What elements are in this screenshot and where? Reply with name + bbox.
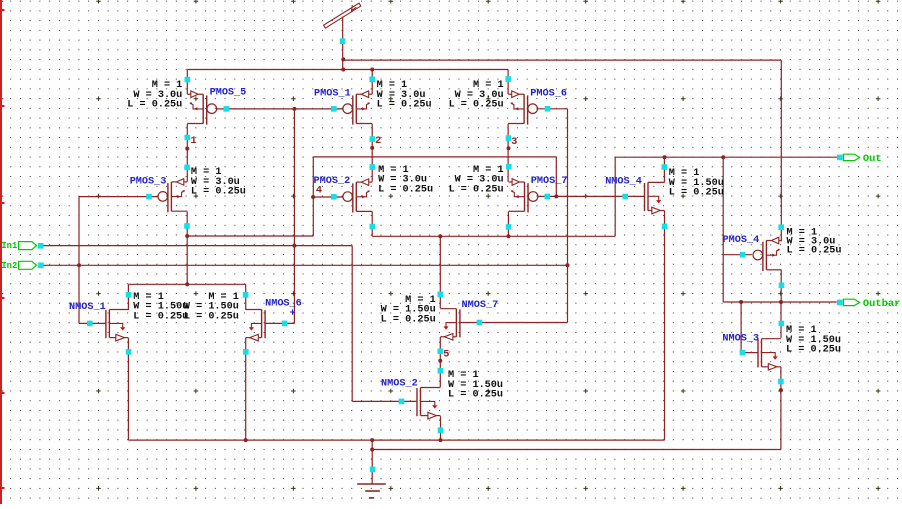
wire ground rail y=440.1 xyxy=(128,439,664,441)
pin NMOS_1 gate xyxy=(87,321,93,327)
wire rail B left drop x=615.2 xyxy=(614,157,616,236)
pin node 5 xyxy=(438,349,444,355)
junction node 2 xyxy=(370,146,374,150)
wire VDD stem xyxy=(342,17,344,70)
svg-text:L = 0.25u: L = 0.25u xyxy=(377,100,432,111)
wire NMOS_7 drain riser x=440.3 xyxy=(439,236,441,308)
ground symbol xyxy=(357,484,386,498)
junction PMOS_1 source tap xyxy=(370,68,374,72)
svg-text:L = 0.25u: L = 0.25u xyxy=(787,246,842,257)
wire rail B y=157.2 xyxy=(615,156,837,158)
junction ground stem at rail xyxy=(370,438,374,442)
wire PMOS_3 drain column xyxy=(186,211,188,284)
junction PMOS_2 gate xyxy=(311,195,315,199)
wire VDD row2 rail y=69.5 xyxy=(187,69,508,71)
anchor cross xyxy=(290,309,295,314)
wire VDD right drop x=781 xyxy=(780,60,782,241)
junction In2 right riser xyxy=(566,263,570,267)
pin NMOS_6 gate xyxy=(282,321,288,327)
svg-text:L = 0.25u: L = 0.25u xyxy=(378,184,433,195)
transistor NMOS_1 xyxy=(106,310,128,341)
transistor PMOS_3 xyxy=(158,179,187,213)
wire PMOS_6 source drop xyxy=(507,70,509,95)
junction In2 left riser xyxy=(77,263,81,267)
svg-text:NMOS_7: NMOS_7 xyxy=(462,300,499,311)
pin VDD stem port xyxy=(340,38,346,44)
wire PMOS_4 drain drop xyxy=(780,270,782,303)
transistor PMOS_4 xyxy=(753,237,781,271)
svg-text:2: 2 xyxy=(375,136,381,147)
junction PMOS_3 drain at bus xyxy=(185,234,189,238)
svg-text:L = 0.25u: L = 0.25u xyxy=(449,184,504,195)
svg-text:PMOS_5: PMOS_5 xyxy=(210,88,247,99)
wire PMOS_4 gate stub xyxy=(723,254,751,256)
junction PMOS_3 drain column at NMOS bus xyxy=(185,282,189,286)
wire gate bus PMOS_5-PMOS_1 y=108.9 xyxy=(216,108,343,110)
junction PMOS_7 drain at bus xyxy=(506,234,510,238)
wire NMOS_6 drain stub xyxy=(245,284,247,310)
junction VDD top rail xyxy=(341,57,345,61)
svg-text:PMOS_1: PMOS_1 xyxy=(314,89,351,100)
wire ground rail 2 y=449.5 xyxy=(372,449,781,451)
wire rail A right drop x=556.3 xyxy=(555,157,557,197)
svg-text:NMOS_6: NMOS_6 xyxy=(265,299,302,310)
wire PMOS_7 drain drop xyxy=(507,211,509,236)
transistor NMOS_2 xyxy=(417,388,441,419)
wire NMOS_6 source drop xyxy=(245,338,247,441)
svg-text:Outbar: Outbar xyxy=(863,298,900,310)
svg-text:L = 0.25u: L = 0.25u xyxy=(127,100,182,111)
wire In1 drop x=352.2 xyxy=(351,246,353,402)
wire rail A y=156.9 xyxy=(313,156,556,158)
transistor NMOS_7 xyxy=(440,309,460,340)
pin NMOS_3 source xyxy=(778,379,784,385)
junction In1 riser at gate bus xyxy=(292,107,296,111)
svg-text:L = 0.25u: L = 0.25u xyxy=(786,345,841,356)
wire In1 y=245.6 xyxy=(44,245,353,247)
pin PMOS_7 drain xyxy=(506,224,512,230)
pin NMOS_2 source xyxy=(438,427,444,433)
transistor NMOS_6 xyxy=(246,310,265,341)
junction NMOS_3 gate riser xyxy=(739,300,743,304)
power symbol VDD xyxy=(324,3,361,28)
svg-text:5: 5 xyxy=(443,350,449,361)
junction In1 riser xyxy=(292,244,296,248)
svg-text:PMOS_2: PMOS_2 xyxy=(314,176,351,187)
transistor PMOS_6 xyxy=(508,91,537,125)
pin PMOS_5 source xyxy=(185,77,191,83)
wire node 5 column xyxy=(439,337,441,387)
pin PMOS_2 drain xyxy=(370,224,376,230)
junction ground stem at rail 2 xyxy=(370,448,374,452)
svg-text:NMOS_3: NMOS_3 xyxy=(722,333,759,344)
pin NMOS_1 drain xyxy=(126,292,132,298)
junction NMOS_4 drain at rail B xyxy=(663,155,667,159)
svg-text:1: 1 xyxy=(191,136,197,147)
svg-text:L = 0.25u: L = 0.25u xyxy=(381,314,436,325)
junction VDD row2 xyxy=(341,68,345,72)
pin NMOS_6 source xyxy=(243,349,249,355)
pin NMOS_2 drain xyxy=(438,368,444,374)
svg-text:PMOS_7: PMOS_7 xyxy=(531,176,568,187)
wire ground stem xyxy=(371,440,373,484)
junction NMOS_3 source arcs xyxy=(779,388,783,392)
pin NMOS_4 source xyxy=(662,224,668,230)
wire PMOS_3 gate stub xyxy=(79,196,158,198)
pin NMOS_1 source xyxy=(126,349,132,355)
pin PMOS_7 source xyxy=(506,164,512,170)
junction NMOS_7 drain at bus xyxy=(438,234,442,238)
wire PMOS_2 gate stub xyxy=(313,196,343,198)
wire Outbar branch drop x=723.2 xyxy=(722,157,724,302)
pin PMOS_6 source xyxy=(505,76,511,82)
svg-text:NMOS_2: NMOS_2 xyxy=(381,379,418,390)
wire node-b bus y=236.3 xyxy=(372,235,615,237)
wire node 2 column x=372.2 xyxy=(371,124,373,182)
wire NMOS_1 gate stub xyxy=(79,322,106,324)
transistor PMOS_5 xyxy=(187,91,216,125)
wire NMOS_3 gate riser x=741.1 xyxy=(740,302,742,353)
svg-text:PMOS_4: PMOS_4 xyxy=(723,235,760,246)
pin node 1 xyxy=(185,135,191,141)
svg-text:NMOS_4: NMOS_4 xyxy=(605,177,642,188)
svg-text:L = 0.25u: L = 0.25u xyxy=(669,188,724,199)
svg-text:4: 4 xyxy=(316,185,322,196)
wire PMOS_6 gate stub xyxy=(537,108,567,110)
pin PMOS_7 gate xyxy=(545,194,551,200)
port Outbar xyxy=(837,300,843,306)
svg-text:L = 0.25u: L = 0.25u xyxy=(449,100,504,111)
pin PMOS_5 gate xyxy=(224,106,230,112)
transistor PMOS_2 xyxy=(343,179,372,213)
wire Outbar line y=302 xyxy=(723,301,837,303)
pin PMOS_4 drain xyxy=(779,283,785,289)
pin PMOS_1 source xyxy=(369,77,375,83)
svg-text:In1: In1 xyxy=(1,241,17,251)
wire NMOS_4 source drop x=664.5 xyxy=(664,211,666,441)
wire node 1 column x=187.3 xyxy=(186,124,188,182)
svg-text:PMOS_6: PMOS_6 xyxy=(530,88,567,99)
transistor NMOS_4 xyxy=(645,182,665,213)
wire In1 riser x=294.4 xyxy=(293,109,295,324)
wire rail A left drop x=313.3 xyxy=(312,157,314,236)
pin In1 xyxy=(38,243,44,249)
junction NMOS_2 source at rail xyxy=(439,438,443,442)
pin PMOS_2 gate xyxy=(331,194,337,200)
transistor NMOS_3 xyxy=(758,339,781,370)
wire PMOS_1 source drop xyxy=(371,70,373,95)
wire NMOS_2 source drop xyxy=(440,416,442,440)
pin PMOS_6 gate xyxy=(545,106,551,112)
svg-text:PMOS_3: PMOS_3 xyxy=(130,177,167,188)
pin NMOS_2 gate xyxy=(399,399,405,405)
pin NMOS_4 gate xyxy=(622,194,628,200)
wire PMOS_5 source drop xyxy=(186,70,188,95)
wire VDD top rail y=60 xyxy=(343,59,781,61)
pin PMOS_2 source xyxy=(370,164,376,170)
wire NMOS_4 drain stub xyxy=(663,157,665,182)
wire NMOS_7 gate stub xyxy=(460,322,568,324)
svg-text:L = 0.25u: L = 0.25u xyxy=(184,311,239,322)
pin NMOS_3 gate xyxy=(740,350,746,356)
wire In2 riser left x=79 xyxy=(78,197,80,324)
transistor PMOS_1 xyxy=(343,91,372,125)
junction node 3 xyxy=(507,146,511,150)
pin NMOS_6 drain xyxy=(243,292,249,298)
junction node 5 xyxy=(438,359,442,363)
pin PMOS_4 gate xyxy=(740,252,746,258)
svg-text:L = 0.25u: L = 0.25u xyxy=(448,390,503,401)
svg-text:L = 0.25u: L = 0.25u xyxy=(133,311,188,322)
pin node 3 xyxy=(506,135,512,141)
junction node 1 xyxy=(185,147,189,151)
pin NMOS_4 drain xyxy=(662,164,668,170)
svg-text:Out: Out xyxy=(863,153,882,165)
pin ground xyxy=(370,467,376,473)
pin NMOS_7 gate xyxy=(477,320,483,326)
pin PMOS_3 drain xyxy=(184,223,190,229)
transistor PMOS_7 xyxy=(509,179,538,213)
wire node 3 column x=508.1 xyxy=(507,124,509,182)
wire NMOS drain bus y=284.3 xyxy=(128,283,245,285)
pin PMOS_1 gate xyxy=(331,106,337,112)
wire NMOS_1 source drop xyxy=(127,338,129,440)
pin node 2 xyxy=(370,136,376,142)
junction NMOS_6 source at rail xyxy=(244,438,248,442)
pin NMOS_3 drain xyxy=(779,321,785,327)
wire NMOS_1 drain stub xyxy=(127,284,129,310)
svg-text:NMOS_1: NMOS_1 xyxy=(69,302,106,313)
port Out xyxy=(836,156,838,158)
junction rail A drop at gate bus xyxy=(554,194,558,198)
wire NMOS_6 gate stub xyxy=(265,322,294,324)
pin PMOS_3 gate xyxy=(146,194,152,200)
wire NMOS_2 gate stub xyxy=(352,400,417,402)
wire NMOS_3 gate stub xyxy=(741,352,758,354)
svg-text:In2: In2 xyxy=(1,261,17,271)
pin PMOS_3 source xyxy=(184,165,190,171)
wire node-a bus y=236.0 left xyxy=(187,235,313,237)
wire NMOS_3 drain riser xyxy=(780,302,782,338)
wire PMOS_2 drain drop xyxy=(371,211,373,236)
wire In2 y=265.3 xyxy=(44,264,568,266)
svg-text:L = 0.25u: L = 0.25u xyxy=(191,187,246,198)
wire In2 riser x=567.5 xyxy=(567,109,569,323)
junction Outbar branch at rail B xyxy=(721,155,725,159)
pin PMOS_4 source xyxy=(778,224,784,230)
junction PMOS_4/NMOS_3 drain at Outbar xyxy=(779,300,783,304)
pin In2 xyxy=(38,263,44,269)
pin NMOS_7 drain xyxy=(438,292,444,298)
svg-text:3: 3 xyxy=(511,137,517,148)
wire gate bus PMOS_7-NMOS_4 y=196.4 xyxy=(538,195,645,197)
wire NMOS_3 source drop xyxy=(780,367,782,450)
